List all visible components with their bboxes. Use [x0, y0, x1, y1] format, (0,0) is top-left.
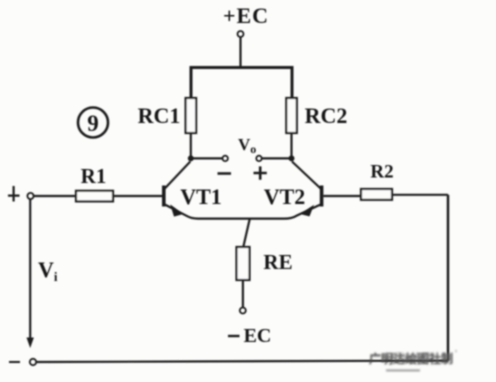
label VT1: [180, 184, 222, 209]
wire emitter bus to RE: [243, 219, 250, 247]
wire right output terminal to node: [262, 157, 292, 159]
symbol circled 9: [78, 108, 108, 138]
label +EC: [223, 3, 269, 28]
terminal output plus: [256, 156, 261, 161]
wire VT2 base to R2: [323, 195, 361, 197]
svg-text:9: 9: [87, 111, 99, 136]
terminal input: [27, 193, 33, 199]
resistor RC2: [286, 98, 297, 133]
terminal -EC: [240, 308, 246, 314]
resistor R2: [361, 189, 392, 200]
transistor VT2 base bar: [320, 186, 324, 207]
polarity plus sign: [254, 166, 267, 179]
transistor VT1 base bar: [162, 186, 166, 207]
label RE: [263, 250, 292, 274]
resistor R1: [76, 191, 113, 202]
arrow Vi: [27, 338, 34, 349]
wire RC1 to collector node: [190, 133, 192, 158]
terminal output minus: [223, 156, 228, 161]
svg-text:R1: R1: [81, 164, 107, 188]
svg-text:': ': [455, 349, 457, 360]
wire R1 to VT1 base: [113, 195, 162, 197]
wire right side vertical: [447, 195, 450, 361]
wire R2 to right corner: [392, 194, 448, 196]
svg-text:RE: RE: [263, 250, 292, 274]
label Vo: [238, 135, 256, 156]
label RC1: [138, 103, 181, 128]
label Vi: [38, 257, 58, 284]
top rail wire: [191, 68, 292, 99]
resistor RC1: [186, 98, 197, 133]
wire input to R1: [34, 195, 76, 197]
label RC2: [305, 103, 348, 128]
transistor VT2 emitter arrow: [300, 205, 314, 217]
svg-text:VT2: VT2: [264, 184, 306, 209]
wire bottom return: [36, 361, 448, 362]
label R1: [81, 164, 107, 188]
node collector VT2 (junction dot): [289, 155, 295, 161]
svg-text:RC2: RC2: [305, 103, 348, 128]
polarity minus sign: [218, 172, 232, 175]
svg-text:VT1: VT1: [180, 184, 222, 209]
svg-text:RC1: RC1: [138, 103, 181, 128]
transistor VT2 collector lead: [292, 162, 321, 189]
wire node to left output terminal: [191, 157, 222, 159]
label VT2: [264, 184, 306, 209]
transistor VT1 emitter arrow: [170, 204, 183, 216]
wire +EC to top rail: [239, 37, 241, 67]
watermark smudge: [369, 349, 457, 371]
wire RE to -EC terminal: [242, 280, 244, 307]
input plus sign: [8, 186, 20, 202]
terminal +EC: [238, 31, 244, 37]
label -EC: [228, 325, 271, 347]
input minus sign: [9, 361, 20, 363]
resistor RE: [237, 247, 250, 280]
svg-text:一广明达绘图社制: 一广明达绘图社制: [372, 351, 450, 362]
terminal bottom left: [30, 359, 36, 365]
svg-text:+EC: +EC: [223, 3, 269, 28]
node collector VT1 (junction dot): [188, 155, 194, 161]
svg-text:R2: R2: [370, 162, 393, 183]
wire Vi vertical: [29, 199, 31, 339]
transistor VT1 emitter lead and emitter bus and VT2 emitter lead: [165, 205, 321, 219]
wire RC2 to collector node: [290, 133, 292, 158]
label R2: [370, 162, 393, 183]
transistor VT1 collector lead: [165, 162, 191, 189]
svg-text:EC: EC: [244, 325, 272, 347]
